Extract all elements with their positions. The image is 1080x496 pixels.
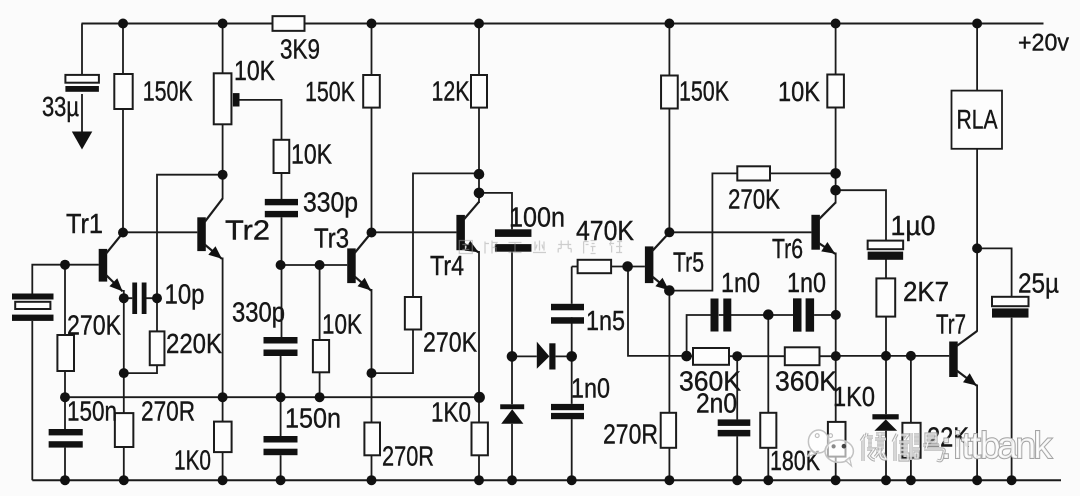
wire: 1n0 to rail xyxy=(571,419,573,480)
svg-text:Tr1: Tr1 xyxy=(66,208,103,239)
wire: Tr6 emitter down xyxy=(835,253,837,481)
junction: Tr3 collector node xyxy=(367,228,377,238)
wire: 220K bottom link xyxy=(124,365,157,373)
svg-text:150K: 150K xyxy=(305,76,355,107)
resistor 270R (3) xyxy=(661,413,676,448)
wire: Tr2 collector stub xyxy=(222,175,224,199)
wire: Tr5 base xyxy=(628,266,645,268)
junction: 1n0 mid node / 180K top xyxy=(763,309,774,320)
junction on +20v rail at pot 10K xyxy=(218,19,228,29)
capacitor 1n5 xyxy=(551,304,584,311)
resistor 360K (1) xyxy=(693,348,729,365)
wire: Tr2 collector node to 220K x=157 xyxy=(157,175,223,332)
wire: 10K4 branch x=835.6 xyxy=(835,24,837,204)
wechat watermark icon xyxy=(808,430,854,466)
svg-text:270K: 270K xyxy=(423,327,477,358)
svg-text:270R: 270R xyxy=(141,396,195,427)
wire: 12K branch x=479 xyxy=(478,24,480,204)
diode D2 (vertical, cathode up) xyxy=(500,404,524,409)
wire: Tr5 collector to Tr6 base xyxy=(669,231,811,233)
resistor 180K xyxy=(760,413,776,448)
wire: cap row right xyxy=(814,314,836,316)
wire: 10p leads xyxy=(124,297,157,299)
svg-text:RLA: RLA xyxy=(957,105,998,135)
svg-text::: : xyxy=(941,425,951,466)
svg-text:Tr4: Tr4 xyxy=(430,250,464,281)
wire: 150K3 branch x=669.4 xyxy=(668,24,670,233)
wire: rail to 33u cap xyxy=(81,24,83,75)
svg-text:1K0: 1K0 xyxy=(174,445,211,476)
svg-text:150K: 150K xyxy=(143,75,193,106)
wire: 150K2 branch x=371.5 xyxy=(371,24,373,233)
junction: twin-T left node xyxy=(681,351,692,362)
resistor 3K9 xyxy=(273,16,305,31)
transistor Tr2 xyxy=(197,217,206,251)
junction on ground rail at 270R3 xyxy=(664,475,674,485)
junction: D1 cathode / 1n5 node xyxy=(566,351,577,362)
wire: Tr3 base xyxy=(281,264,348,266)
svg-text:33µ: 33µ xyxy=(42,91,79,122)
wire: link to 1u0 xyxy=(836,190,886,240)
junction: Tr5 collector node xyxy=(664,227,674,237)
wire: 330p1 to Tr3 base node xyxy=(281,217,283,337)
junction: Tr7 collector / 25u node xyxy=(972,243,982,253)
resistor 150K (1) xyxy=(114,74,132,109)
junction: 270K1 / 150n1 node xyxy=(60,392,70,402)
capacitor 1n0 (below diode) xyxy=(551,404,584,410)
junction: 10K4 bottom / 270K3 node xyxy=(830,168,841,179)
svg-text:1n0: 1n0 xyxy=(721,267,760,298)
wire: Tr1 emitter chain x=123.8 xyxy=(123,290,125,480)
junction: Tr5 base / 470K node xyxy=(622,261,633,272)
wire: mic bottom to ground rail xyxy=(31,321,33,480)
wire: 150n2 to rail xyxy=(280,455,282,480)
junction on ground rail at 180K xyxy=(763,475,773,485)
wire: 470K row xyxy=(572,266,628,268)
diode D3 (vertical, cathode up) xyxy=(872,414,898,419)
svg-text:1µ0: 1µ0 xyxy=(891,210,936,241)
junction on ground rail at 2n0 xyxy=(732,475,742,485)
wire: twin-T cap row left xyxy=(687,315,711,356)
svg-text:25µ: 25µ xyxy=(1018,268,1059,299)
svg-text:Tr3: Tr3 xyxy=(314,223,349,254)
wire: Tr7 emitter down xyxy=(976,385,978,481)
wire: 100n to diode row / vert diode xyxy=(511,252,513,404)
resistor 270K (1) xyxy=(57,335,74,371)
junction: Tr6 emitter / 360K right node xyxy=(831,351,841,361)
wire: diode D2 branch xyxy=(885,356,887,414)
wire: Tr1 collector to Tr2 base xyxy=(123,231,197,233)
relay RLA box xyxy=(952,91,1003,149)
wire: long node y=397 xyxy=(65,396,479,398)
svg-text:Tr5: Tr5 xyxy=(673,247,704,278)
top +20v rail (right of 3K9) xyxy=(305,23,1044,25)
svg-text:10K: 10K xyxy=(322,309,362,340)
wire: link to 25u xyxy=(977,248,1012,296)
wire: 1n5 to 1n0 xyxy=(571,317,573,404)
resistor 270R (1) xyxy=(115,413,134,447)
junction on +20v rail at 10K4 xyxy=(831,19,841,29)
junction: Tr6 emitter / 1n0 right node xyxy=(831,310,841,320)
capacitor 330p (2) xyxy=(264,337,298,344)
wire: RLA branch x=977 xyxy=(976,24,978,91)
svg-text:3K9: 3K9 xyxy=(280,34,320,65)
svg-text:220K: 220K xyxy=(166,328,222,359)
svg-text:10K: 10K xyxy=(234,55,275,86)
svg-text:270K: 270K xyxy=(728,184,780,215)
wire: 33u cap to ground arrow xyxy=(81,94,83,132)
junction on ground rail at 22K xyxy=(906,475,916,485)
diode D1 (series, pointing right) xyxy=(537,342,550,369)
capacitor 330p (1) xyxy=(265,199,298,205)
wire: 1n5 top to 470K xyxy=(571,267,573,304)
wire: Tr5 emitter down xyxy=(668,289,670,480)
wire: Tr3 collector node to Tr4 base xyxy=(372,231,457,233)
capacitor 1n0 (twin-T right) xyxy=(793,298,802,331)
svg-text:k: k xyxy=(1034,425,1053,466)
wire: RLA to Tr7 collector xyxy=(976,149,978,332)
junction: 1K0-2 top xyxy=(474,392,485,403)
svg-text:150n: 150n xyxy=(285,403,341,434)
svg-text:1K0: 1K0 xyxy=(431,397,471,428)
svg-text:Tr7: Tr7 xyxy=(936,309,966,340)
wire: Tr7 base row xyxy=(836,355,950,357)
resistor 150K (2) xyxy=(363,75,380,108)
resistor 1K0 (3) xyxy=(828,422,846,457)
capacitor 150n (1) xyxy=(49,429,83,435)
wire: 180K branch xyxy=(767,315,769,413)
junction on ground rail at 270R1 xyxy=(119,475,129,485)
wire: mic to Tr1 base xyxy=(32,265,99,294)
wire: 330p2 to 150n2 xyxy=(280,356,282,436)
junction: 150n2 top xyxy=(276,392,286,402)
wire: 270K1 branch / 150n1 x=65 xyxy=(64,265,66,429)
junction on ground rail at 1n0 xyxy=(567,475,577,485)
wire: cap row mid xyxy=(719,314,793,316)
svg-text:2n0: 2n0 xyxy=(696,388,737,419)
junction: 100n bottom / D1 anode xyxy=(507,351,518,362)
capacitor 1n0 (twin-T left) xyxy=(711,299,719,332)
resistor 270K (2) xyxy=(405,297,421,330)
svg-text:100n: 100n xyxy=(509,202,565,233)
wire: Tr5 base down to twin-T left xyxy=(628,267,687,356)
junction: 1K0-1 top xyxy=(218,392,228,402)
wire: 1u0 to 2K7 to base row xyxy=(885,259,887,356)
svg-text:i: i xyxy=(954,425,962,466)
junction on ground rail at 1K0-1 xyxy=(218,475,228,485)
svg-text:360K: 360K xyxy=(775,366,837,397)
wire: diode row leads xyxy=(512,355,572,357)
ground arrow xyxy=(72,132,93,150)
junction: Tr3 base node xyxy=(276,260,286,270)
potentiometer 10K xyxy=(214,73,232,124)
faint press watermark characters xyxy=(459,241,622,254)
svg-text:150K: 150K xyxy=(679,76,729,107)
transistor Tr5 xyxy=(645,246,654,283)
wire: link to 270K2 xyxy=(372,173,480,373)
capacitor 10p xyxy=(132,283,137,315)
junction on ground rail at 270R2 xyxy=(367,475,377,485)
svg-text:330p: 330p xyxy=(303,187,358,218)
junction on ground rail at D2 xyxy=(507,475,517,485)
wire: link to 100n xyxy=(479,193,512,229)
svg-text:10p: 10p xyxy=(165,279,205,310)
transistor Tr7 xyxy=(949,342,958,378)
junction on ground rail at 1K0-2 xyxy=(474,475,484,485)
microphone transducer xyxy=(12,294,54,300)
capacitor 100n xyxy=(495,229,532,237)
junction: Tr4 collector / 100n node xyxy=(474,188,485,199)
svg-text:12K: 12K xyxy=(432,76,470,107)
resistor 220K xyxy=(150,331,165,365)
junction: 12K bottom / 270K2 node xyxy=(474,169,485,180)
svg-text:150n: 150n xyxy=(67,396,117,427)
wire: pot branch x=222.6 xyxy=(222,24,224,175)
junction: 220K bottom link xyxy=(119,368,129,378)
capacitor 25u xyxy=(992,297,1029,306)
resistor 1K0 (2) xyxy=(472,423,488,456)
resistor 10K (3) xyxy=(313,340,329,372)
wire: Tr2 emitter down x=222.6 xyxy=(222,258,224,481)
resistor 1K0 (1) xyxy=(214,422,232,453)
junction: 270K2 bottom link xyxy=(367,368,377,378)
wire: pot wiper to 10K2 xyxy=(240,100,282,199)
junction on +20v rail at 12K xyxy=(474,19,484,29)
wire: vert diode D1 to rail xyxy=(511,424,513,480)
svg-text:330p: 330p xyxy=(232,297,285,328)
svg-text:1n0: 1n0 xyxy=(787,267,826,298)
wechat watermark text: fake CJK strokes for wei xin hao xyxy=(861,433,887,461)
junction: Tr6 collector / 1u0 node xyxy=(830,185,841,196)
svg-text:10K: 10K xyxy=(778,76,820,107)
junction on ground rail at 25u xyxy=(1007,475,1017,485)
junction: Tr1 base / 270K top xyxy=(60,260,70,270)
junction: 2K7 bottom / D3 node xyxy=(881,351,891,361)
wire: 2n0 branch xyxy=(736,356,738,419)
bottom ground rail xyxy=(32,479,1061,481)
wire: Tr4 emitter down xyxy=(478,251,480,480)
svg-text:Tr6: Tr6 xyxy=(772,233,803,264)
wire: 22K branch xyxy=(910,356,912,480)
resistor 22K xyxy=(902,423,920,458)
resistor 2K7 xyxy=(876,278,895,316)
svg-text:Tr2: Tr2 xyxy=(225,215,270,246)
junction: 10K3 bottom xyxy=(315,392,325,402)
svg-text:2K7: 2K7 xyxy=(903,276,949,307)
transistor Tr3 xyxy=(347,248,356,283)
junction on +20v rail at 150K2 xyxy=(367,19,377,29)
junction: Tr1 collector node xyxy=(118,228,128,238)
resistor 270R (2) xyxy=(364,423,380,456)
junction: 10K3 top xyxy=(315,260,325,270)
resistor 360K (2) xyxy=(785,347,820,365)
svg-text:1n0: 1n0 xyxy=(571,373,610,404)
svg-text:270R: 270R xyxy=(382,441,434,472)
junction on +20v rail at 150K1 xyxy=(118,19,128,29)
junction on +20v rail at 150K3 xyxy=(664,19,674,29)
capacitor 33u xyxy=(65,75,99,83)
top +20v rail (left of 3K9) xyxy=(82,23,273,25)
wire: 10K3 branch xyxy=(319,265,321,397)
resistor 10K (2) xyxy=(274,140,290,173)
transistor Tr4 xyxy=(456,215,465,250)
junction: Tr2 collector node xyxy=(218,170,228,180)
resistor 12K xyxy=(471,75,487,108)
junction: 360K mid node / 2n0 top xyxy=(732,351,742,361)
wire: 360K row xyxy=(687,355,836,357)
junction on ground rail at 150n1 xyxy=(60,475,70,485)
svg-text:270R: 270R xyxy=(603,419,658,450)
svg-text:10K: 10K xyxy=(291,139,332,170)
svg-text:1n5: 1n5 xyxy=(586,305,625,336)
svg-text:1K0: 1K0 xyxy=(833,381,875,412)
junction: 10p left xyxy=(119,293,129,303)
wire: 25u to rail xyxy=(1011,318,1013,480)
transistor Tr1 xyxy=(99,249,108,282)
resistor 270K (3) xyxy=(737,166,770,180)
resistor 10K (4) xyxy=(827,75,844,108)
capacitor 1u0 xyxy=(868,241,904,250)
wire: 150K1 branch x=123 xyxy=(122,24,124,233)
junction: 22K top node xyxy=(906,351,916,361)
junction on ground rail at D3 xyxy=(881,475,891,485)
junction on +20v rail at RLA xyxy=(972,19,982,29)
junction: Tr5 emitter node xyxy=(664,285,675,296)
junction on ground rail at 1K0-3 xyxy=(831,475,841,485)
junction on ground rail at 150n2 xyxy=(276,475,286,485)
resistor 150K (3) xyxy=(661,76,678,109)
svg-text:+20v: +20v xyxy=(1018,30,1069,57)
capacitor 2n0 xyxy=(718,419,751,426)
wire: Tr3 emitter down xyxy=(371,289,373,480)
svg-text:270K: 270K xyxy=(67,310,121,341)
junction: 10p right xyxy=(152,293,162,303)
capacitor 150n (2) xyxy=(264,436,298,443)
resistor 470K xyxy=(578,260,612,273)
transistor Tr6 xyxy=(811,215,820,250)
wire: Tr5 emitter to 270K3 xyxy=(669,173,835,290)
junction on ground rail at Tr7 emitter xyxy=(972,475,982,485)
